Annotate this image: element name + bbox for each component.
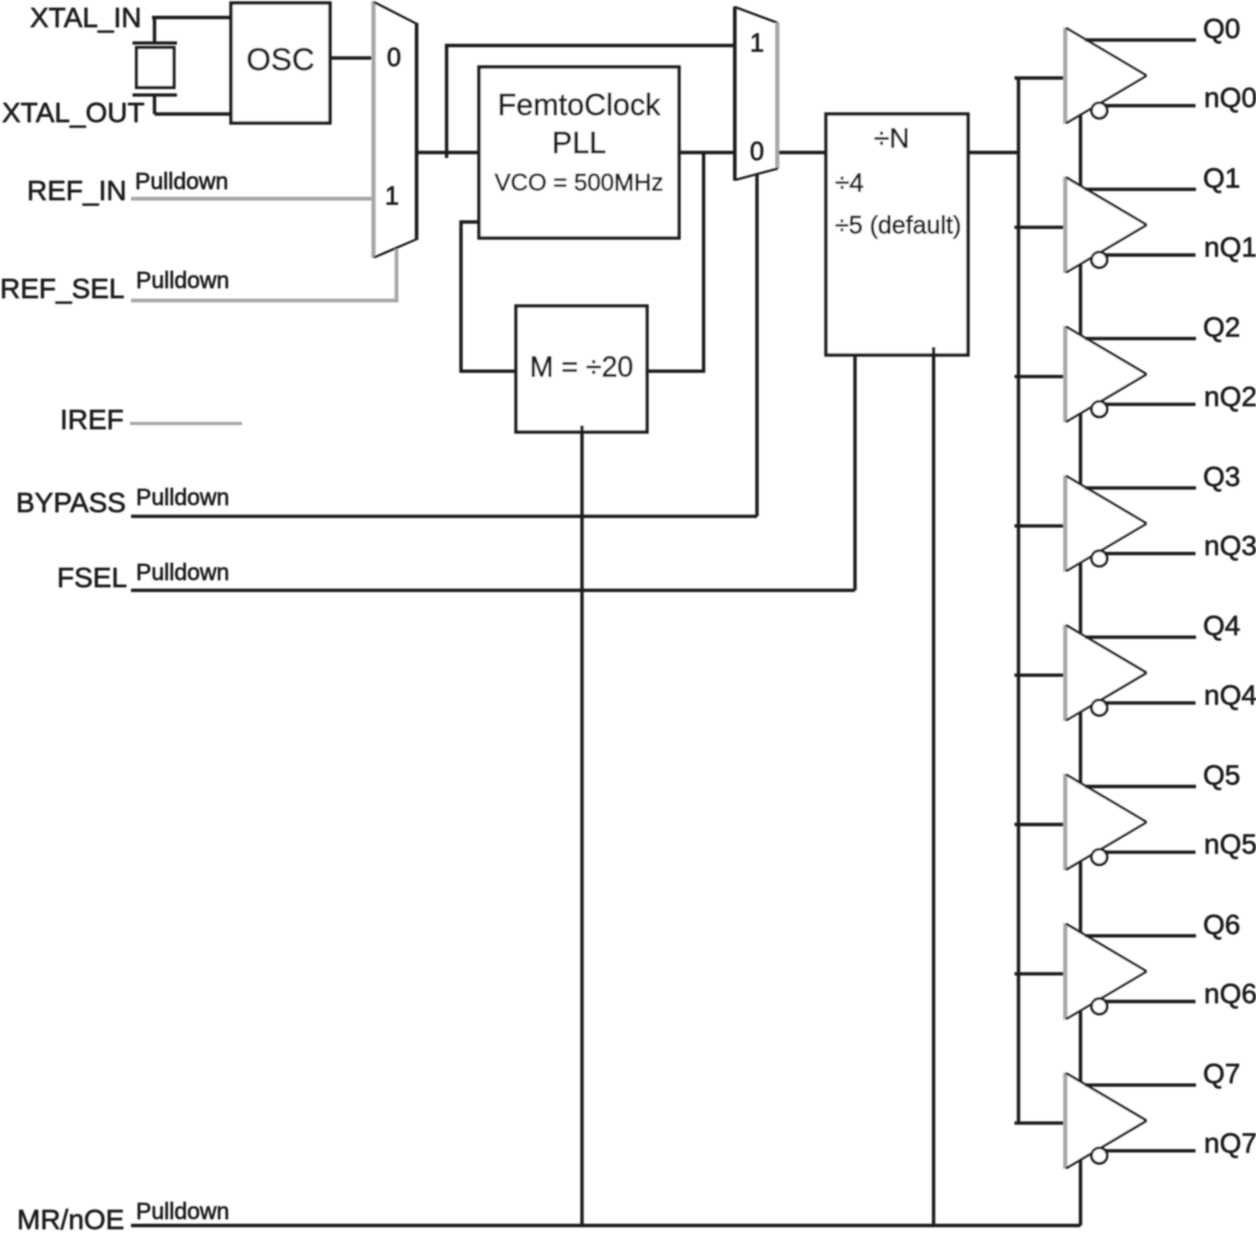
svg-text:VCO = 500MHz: VCO = 500MHz [495, 170, 664, 197]
bubble inverted output nQ0 [1092, 103, 1108, 119]
wire Q4 output [1085, 636, 1196, 639]
wire crystal to XTAL_OUT wire [153, 95, 156, 114]
wire bus tap to buffer Q6 [1015, 972, 1067, 975]
svg-text:1: 1 [750, 30, 764, 58]
wire FSEL to divider N [853, 355, 856, 590]
bubble inverted output nQ1 [1092, 252, 1108, 268]
svg-text:nQ2: nQ2 [1204, 381, 1256, 412]
wire MR/nOE riser to output buffers [1079, 112, 1082, 1226]
wire XTAL_IN down to crystal [153, 18, 156, 44]
svg-text:nQ4: nQ4 [1204, 679, 1256, 710]
wire PLL output feedback tap to M divider [647, 153, 704, 372]
svg-text:0: 0 [750, 138, 764, 166]
wire nQ7 output [1105, 1149, 1196, 1152]
wire mux U2 output to divider N [779, 151, 826, 154]
wire IREF stub [130, 422, 242, 425]
svg-text:M = ÷20: M = ÷20 [530, 352, 634, 384]
wire Q3 output [1085, 486, 1196, 489]
divider M box [516, 306, 647, 432]
divider N box [826, 114, 968, 355]
wire REF_IN to mux input 1 [131, 197, 374, 201]
svg-text:÷5 (default): ÷5 (default) [835, 212, 961, 240]
svg-text:nQ7: nQ7 [1204, 1127, 1256, 1158]
wire MR to M divider [580, 426, 583, 1226]
wire PLL output to mux U2 input 0 [679, 151, 735, 154]
svg-text:XTAL_IN: XTAL_IN [30, 2, 142, 33]
wire bus tap to buffer Q2 [1015, 375, 1067, 378]
svg-text:OSC: OSC [246, 41, 314, 77]
wire Q1 output [1085, 188, 1196, 191]
wire MR to divider N [932, 347, 935, 1226]
bubble inverted output nQ3 [1092, 551, 1108, 567]
bubble inverted output nQ4 [1092, 700, 1108, 716]
wire BYPASS [131, 515, 757, 518]
buffer U16 differential output driver Q6/nQ6 [1066, 923, 1147, 1019]
wire bus tap to buffer Q5 [1015, 823, 1067, 826]
svg-text:MR/nOE: MR/nOE [17, 1204, 124, 1231]
svg-text:nQ3: nQ3 [1204, 530, 1256, 561]
wire nQ5 output [1105, 851, 1196, 854]
svg-text:1: 1 [385, 183, 399, 211]
wire BYPASS to mux U2 select [755, 174, 758, 516]
PLL U3 FemtoClock box [479, 67, 679, 238]
wire bus tap to buffer Q3 [1015, 524, 1067, 527]
wire Q7 output [1085, 1083, 1196, 1086]
wire mux U1 output to PLL input [417, 151, 479, 154]
wire nQ3 output [1105, 552, 1196, 555]
wire bus tap to buffer Q7 [1015, 1121, 1067, 1124]
svg-text:Q7: Q7 [1203, 1058, 1240, 1089]
svg-text:nQ5: nQ5 [1204, 829, 1256, 860]
oscillator OSC box [231, 3, 330, 123]
bubble inverted output nQ2 [1092, 401, 1108, 417]
wire Q0 output [1085, 38, 1196, 41]
wire nQ2 output [1105, 403, 1196, 406]
svg-text:XTAL_OUT: XTAL_OUT [2, 97, 145, 128]
buffer U13 differential output driver Q3/nQ3 [1066, 475, 1147, 571]
buffer U14 differential output driver Q4/nQ4 [1066, 625, 1147, 721]
svg-text:Q5: Q5 [1203, 760, 1240, 791]
buffer U17 differential output driver Q7/nQ7 [1066, 1073, 1147, 1169]
svg-text:nQ1: nQ1 [1204, 232, 1256, 263]
wire REF_SEL to mux select [131, 249, 397, 301]
svg-text:Pulldown: Pulldown [135, 168, 228, 194]
svg-text:REF_IN: REF_IN [27, 175, 127, 206]
svg-text:Pulldown: Pulldown [136, 484, 229, 510]
svg-text:BYPASS: BYPASS [16, 487, 126, 518]
bubble inverted output nQ6 [1092, 999, 1108, 1015]
svg-text:nQ6: nQ6 [1204, 978, 1256, 1009]
svg-text:÷4: ÷4 [835, 168, 864, 198]
svg-text:Q2: Q2 [1203, 312, 1240, 343]
wire nQ6 output [1105, 1000, 1196, 1003]
wire bypass path to mux U2 input 1 [447, 46, 735, 159]
wire FSEL [131, 589, 855, 592]
wire nQ0 output [1105, 104, 1196, 107]
svg-text:REF_SEL: REF_SEL [0, 273, 125, 304]
buffer U12 differential output driver Q2/nQ2 [1066, 326, 1147, 422]
wire MR/nOE [131, 1224, 1081, 1227]
svg-text:FemtoClock: FemtoClock [498, 88, 661, 122]
wire XTAL_IN to OSC [152, 16, 231, 19]
wire Q5 output [1085, 785, 1196, 788]
svg-text:Q1: Q1 [1203, 162, 1240, 193]
wire XTAL_OUT to OSC [155, 112, 232, 115]
bubble inverted output nQ5 [1092, 849, 1108, 865]
bubble inverted output nQ7 [1092, 1148, 1108, 1164]
svg-text:IREF: IREF [60, 404, 124, 435]
svg-text:Q4: Q4 [1203, 610, 1240, 641]
wire bus tap to buffer Q4 [1015, 674, 1067, 677]
svg-text:PLL: PLL [552, 126, 606, 160]
wire bus tap to buffer Q0 [1015, 76, 1067, 79]
svg-text:nQ0: nQ0 [1204, 82, 1256, 113]
svg-text:Pulldown: Pulldown [136, 267, 229, 293]
svg-text:Q3: Q3 [1203, 461, 1240, 492]
wire clock bus vertical [1017, 78, 1020, 1123]
wire Q2 output [1085, 337, 1196, 340]
mux U2 bypass select [733, 7, 737, 181]
wire divider N output to clock bus [968, 151, 1019, 154]
svg-text:Pulldown: Pulldown [136, 1198, 229, 1224]
svg-text:Q0: Q0 [1203, 13, 1240, 44]
svg-text:FSEL: FSEL [57, 562, 127, 593]
svg-text:Q6: Q6 [1203, 909, 1240, 940]
svg-text:0: 0 [387, 44, 401, 72]
wire nQ1 output [1105, 253, 1196, 256]
mux U1 input select [371, 1, 375, 258]
wire OSC output to mux input 0 [330, 56, 374, 59]
buffer U11 differential output driver Q1/nQ1 [1066, 177, 1147, 273]
svg-text:÷N: ÷N [874, 123, 910, 154]
wire bus tap to buffer Q1 [1015, 226, 1067, 229]
wire Q6 output [1085, 934, 1196, 937]
crystal X1 [133, 41, 178, 44]
buffer U15 differential output driver Q5/nQ5 [1066, 774, 1147, 870]
buffer U10 differential output driver Q0/nQ0 [1066, 28, 1147, 124]
svg-text:Pulldown: Pulldown [136, 559, 229, 585]
wire nQ4 output [1105, 701, 1196, 704]
wire M divider output to PLL feedback input [461, 222, 516, 371]
